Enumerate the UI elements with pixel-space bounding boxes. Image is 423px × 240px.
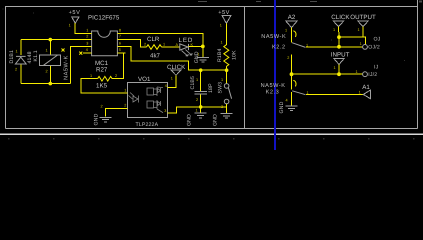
svg-text:6: 6 bbox=[119, 41, 121, 45]
svg-text:+5V: +5V bbox=[218, 10, 230, 16]
wire VO1 pin2 to ground bbox=[106, 108, 128, 116]
svg-text:10K: 10K bbox=[231, 50, 237, 60]
wire pin8 to gnd rail bbox=[125, 34, 202, 57]
full-width separator line bbox=[0, 133, 423, 135]
svg-text:8: 8 bbox=[119, 28, 121, 32]
svg-text:4: 4 bbox=[165, 84, 167, 88]
flag INPUT bbox=[331, 52, 350, 75]
connector pin IJ/2 bbox=[356, 64, 379, 78]
node junction INPUT/IJ bbox=[337, 72, 341, 76]
svg-text:1: 1 bbox=[333, 28, 335, 32]
svg-text:1: 1 bbox=[86, 28, 88, 32]
svg-text:7: 7 bbox=[119, 35, 121, 39]
node junction CLICK/OJ bbox=[337, 45, 341, 49]
svg-text:1: 1 bbox=[46, 49, 48, 53]
node junction K2 column bbox=[290, 72, 294, 76]
wire pin2 net bbox=[21, 39, 92, 41]
wire pin3 down to bottom net bbox=[70, 47, 91, 84]
blue net line bbox=[274, 0, 276, 150]
svg-text:SW3: SW3 bbox=[218, 82, 224, 94]
node junction C1B5 bottom bbox=[199, 105, 203, 109]
svg-text:GND: GND bbox=[187, 114, 193, 126]
wire R27 right up to pin5 bbox=[112, 53, 123, 79]
wire A2 to K2.2 pole bbox=[291, 28, 293, 90]
svg-text:A1: A1 bbox=[362, 84, 370, 91]
frame left panel bbox=[6, 0, 418, 129]
diode D1B1 bbox=[9, 40, 33, 84]
svg-text:2: 2 bbox=[86, 35, 88, 39]
svg-text:2: 2 bbox=[46, 70, 48, 74]
svg-text:2: 2 bbox=[287, 56, 289, 60]
wire K2.2 to OJ bbox=[306, 46, 363, 48]
svg-text:1: 1 bbox=[356, 70, 358, 74]
frame divider bbox=[244, 7, 246, 129]
svg-text:R1B4: R1B4 bbox=[217, 48, 223, 62]
frame bottom of panels bbox=[6, 128, 418, 130]
svg-text:1: 1 bbox=[196, 78, 198, 82]
svg-text:1: 1 bbox=[196, 109, 198, 113]
wire bottom net VO1 pin3 / C1B5 / SW3 bbox=[168, 107, 227, 113]
svg-text:2: 2 bbox=[144, 42, 146, 46]
node junction CLICK/OUTPUT bbox=[337, 35, 341, 39]
power +5V P2 bbox=[218, 10, 231, 28]
ground GND (LED) bbox=[194, 51, 209, 63]
svg-text:GND: GND bbox=[94, 113, 100, 125]
LED D2 bbox=[176, 37, 203, 56]
svg-text:A2: A2 bbox=[288, 14, 296, 21]
svg-text:OUTPUT: OUTPUT bbox=[350, 14, 376, 21]
svg-text:1: 1 bbox=[171, 76, 173, 80]
node junction R1B4/SW3 top bbox=[225, 68, 229, 72]
svg-text:2: 2 bbox=[15, 68, 17, 72]
flag A1 bbox=[359, 84, 371, 99]
connector pin OJ/2 bbox=[360, 36, 381, 50]
no-connect X (K1 area) bbox=[62, 49, 65, 52]
node junction K1 bottom bbox=[49, 82, 53, 86]
svg-text:4: 4 bbox=[86, 48, 88, 52]
svg-text:1K5: 1K5 bbox=[96, 82, 108, 89]
svg-text:INPUT: INPUT bbox=[331, 52, 350, 59]
svg-text:K2.3: K2.3 bbox=[266, 89, 280, 95]
svg-text:4k7: 4k7 bbox=[150, 53, 161, 60]
svg-text:R27: R27 bbox=[96, 66, 108, 73]
svg-text:CLICK: CLICK bbox=[331, 14, 350, 21]
svg-text:K2.2: K2.2 bbox=[272, 44, 286, 50]
internal FETs bbox=[147, 87, 163, 113]
capacitor C1B5 18P bbox=[190, 70, 214, 107]
pins bbox=[119, 88, 176, 113]
svg-text:D1B1: D1B1 bbox=[9, 50, 15, 64]
wire K2.3 pole to GND bbox=[291, 92, 293, 106]
node junction C1B5 top bbox=[199, 68, 203, 72]
svg-text:2: 2 bbox=[101, 105, 103, 109]
ground GND (C1B5) bbox=[187, 107, 207, 126]
svg-text:IJ/2: IJ/2 bbox=[368, 72, 377, 78]
svg-text:CLR: CLR bbox=[147, 36, 160, 43]
svg-text:2: 2 bbox=[196, 98, 198, 102]
svg-text:IJ: IJ bbox=[374, 64, 379, 70]
relay contact K2.2 bbox=[261, 31, 308, 51]
svg-text:1: 1 bbox=[358, 28, 360, 32]
svg-text:1: 1 bbox=[198, 53, 200, 57]
svg-text:1: 1 bbox=[221, 78, 223, 82]
svg-text:NA5W-K: NA5W-K bbox=[261, 83, 286, 89]
svg-text:3: 3 bbox=[86, 41, 88, 45]
svg-text:1: 1 bbox=[124, 89, 126, 93]
svg-text:OJ/2: OJ/2 bbox=[368, 45, 380, 51]
svg-text:1: 1 bbox=[360, 42, 362, 46]
resistor R27 1K5 bbox=[90, 60, 117, 90]
ground GND (VO1) bbox=[94, 105, 112, 126]
svg-text:1: 1 bbox=[90, 74, 92, 78]
wire +5V to pin1 bbox=[75, 23, 92, 33]
resistor CLR 4k7 bbox=[125, 36, 179, 59]
svg-text:TLP222A: TLP222A bbox=[136, 122, 159, 128]
wire IJ row bbox=[292, 73, 363, 75]
internal LED + arrows bbox=[129, 93, 139, 103]
node junction pin2/K1 bbox=[49, 38, 53, 42]
svg-text:1: 1 bbox=[221, 41, 223, 45]
svg-text:4: 4 bbox=[286, 99, 288, 103]
svg-text:18P: 18P bbox=[208, 83, 214, 93]
svg-text:GND: GND bbox=[213, 114, 219, 126]
switch SW3 bbox=[218, 70, 232, 113]
ground GND (K2.3) bbox=[279, 101, 298, 113]
svg-text:5: 5 bbox=[119, 48, 121, 52]
svg-text:1: 1 bbox=[163, 43, 165, 47]
svg-text:NA5W-K: NA5W-K bbox=[64, 55, 70, 80]
svg-text:+5V: +5V bbox=[69, 10, 81, 16]
wire bottom net D1/K1 to pin3 bbox=[21, 83, 71, 85]
flag A2 bbox=[285, 14, 297, 33]
relay contact K2.3 bbox=[261, 80, 309, 102]
relay coil K1.1 bbox=[33, 40, 70, 84]
svg-text:1: 1 bbox=[220, 23, 222, 27]
svg-text:OJ: OJ bbox=[374, 36, 381, 42]
svg-text:1: 1 bbox=[16, 49, 18, 53]
pin stubs bbox=[83, 34, 125, 54]
wire pin6 to button net bbox=[125, 47, 226, 71]
flag CLICK (right) bbox=[331, 14, 350, 47]
svg-text:1: 1 bbox=[285, 29, 287, 33]
node junction LED/GND bbox=[201, 45, 205, 49]
grid dots bbox=[3, 9, 415, 140]
optocoupler VO1 TLP222A bbox=[119, 76, 176, 128]
wire K2.3 to A1 bbox=[306, 94, 363, 96]
flag CLICK bbox=[167, 64, 186, 88]
cut-off text marks above frame bbox=[198, 1, 422, 3]
resistor R1B4 10K bbox=[217, 23, 237, 70]
svg-text:1: 1 bbox=[359, 90, 361, 94]
svg-text:3: 3 bbox=[164, 109, 166, 113]
svg-text:K1.1: K1.1 bbox=[33, 50, 39, 61]
flag OUTPUT bbox=[339, 14, 376, 44]
power +5V P1 bbox=[69, 10, 81, 27]
svg-text:PIC12F675: PIC12F675 bbox=[88, 14, 120, 21]
svg-text:2: 2 bbox=[124, 104, 126, 108]
no-connect X pin4 bbox=[79, 52, 82, 55]
wire R27 left to VO1 pin1 bbox=[81, 79, 128, 94]
svg-text:1: 1 bbox=[69, 24, 71, 28]
svg-text:1: 1 bbox=[334, 66, 336, 70]
pin numbers bbox=[86, 28, 121, 52]
ground GND (SW3) bbox=[213, 114, 233, 126]
op IC PIC12F675 U1 bbox=[62, 14, 126, 55]
svg-text:2: 2 bbox=[115, 74, 117, 78]
svg-text:NA5W-K: NA5W-K bbox=[261, 34, 286, 40]
frame right border bbox=[417, 0, 419, 129]
svg-text:GND: GND bbox=[279, 101, 285, 113]
